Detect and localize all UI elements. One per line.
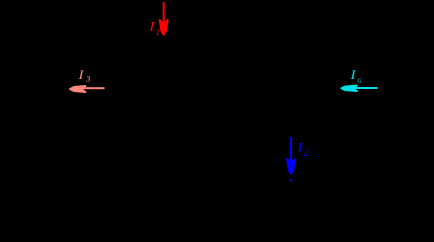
svg-text:1: 1 — [156, 27, 160, 37]
svg-text:G: G — [357, 78, 362, 84]
svg-text:2: 2 — [304, 149, 309, 159]
svg-text:3: 3 — [85, 73, 90, 83]
